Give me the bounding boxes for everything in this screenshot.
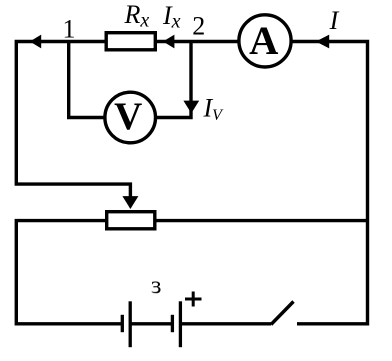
arrow: current IV down into voltmeter branch: [183, 101, 199, 114]
battery cell 1 negative plate (short): [121, 315, 124, 332]
svg-text:2: 2: [192, 12, 205, 41]
battery cell 2 negative plate (short): [171, 315, 174, 332]
svg-text:A: A: [249, 18, 278, 63]
resistor Rx (box): [106, 33, 155, 50]
ammeter A: [239, 15, 291, 67]
wire: between battery cells: [130, 322, 172, 325]
wire: top wire from resistor Rx left end to top-left corner, down left side, to rheostat wiper feed: [16, 42, 130, 200]
battery cell 2 positive plate (long): [179, 301, 182, 347]
wire: top wire from resistor Rx right end through node 2 to ammeter left terminal: [157, 40, 238, 43]
svg-text:1: 1: [63, 15, 76, 44]
svg-text:ε: ε: [151, 272, 162, 299]
wire: rheostat right terminal to right-side vertical (junction): [157, 219, 368, 222]
arrow: rheostat wiper arrowhead: [122, 196, 138, 209]
wire: rheostat left terminal to lower-left corner, down, to battery negative plate: [16, 221, 121, 324]
label + (battery positive): [185, 292, 202, 307]
arrow: current I at top-right: [316, 35, 329, 49]
voltmeter V: [105, 92, 156, 143]
wire: ammeter right terminal to top-right corner, down right side, to switch right contact: [292, 42, 367, 324]
switch (open lever): [271, 302, 294, 325]
svg-text:I: I: [329, 6, 340, 35]
wire: node 2 vertical drop and voltmeter right lead: [156, 42, 191, 118]
wire: battery positive terminal to switch: [180, 322, 271, 325]
svg-text:V: V: [114, 95, 142, 138]
wire: node 1 vertical drop and voltmeter left lead: [69, 42, 105, 118]
arrow: current direction at top-left: [30, 35, 41, 49]
arrow: current Ix into resistor: [163, 35, 174, 49]
battery cell 1 positive plate (long): [129, 301, 132, 347]
rheostat (potentiometer track box): [107, 212, 155, 229]
